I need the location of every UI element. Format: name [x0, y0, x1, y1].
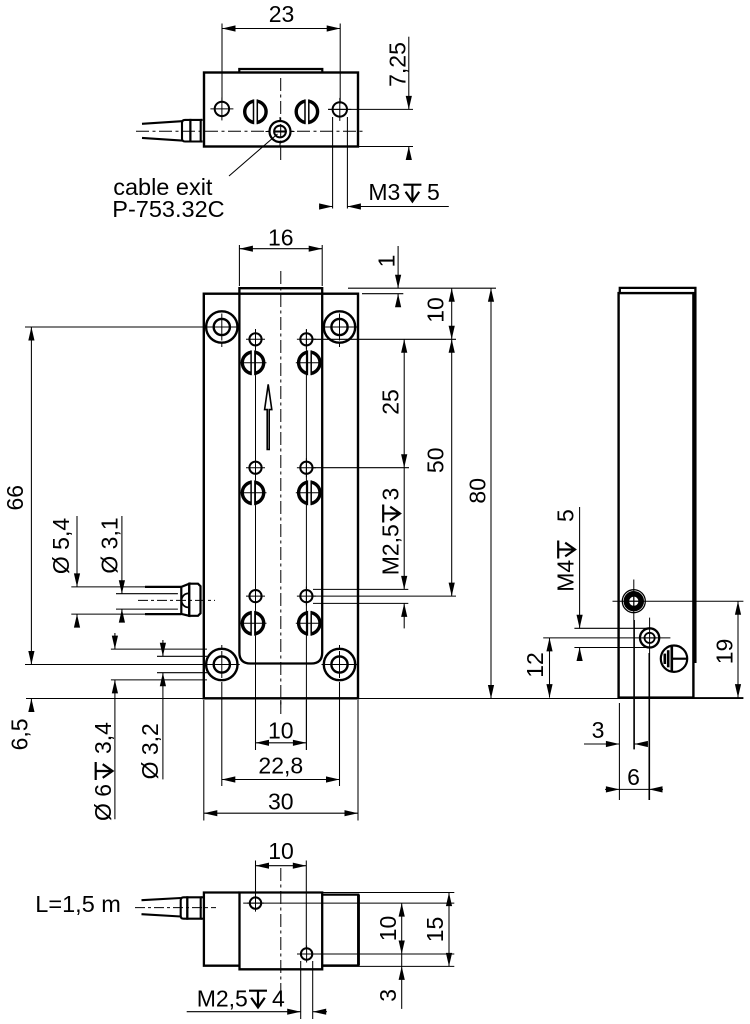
- dimension 10 bottom view: [255, 861, 257, 898]
- bottom view cable wires: [142, 898, 181, 900]
- svg-text:Ø 3,1: Ø 3,1: [97, 517, 123, 573]
- svg-text:19: 19: [712, 639, 738, 665]
- svg-text:L=1,5 m: L=1,5 m: [35, 891, 121, 917]
- svg-text:30: 30: [268, 789, 294, 815]
- front view centerline vertical: [280, 271, 282, 714]
- dimension 80: [362, 698, 496, 700]
- dimension M3 depth 5: [332, 117, 334, 209]
- front view corner hole bottom-left: [204, 649, 240, 680]
- top view mounting hole left: [210, 97, 233, 120]
- svg-text:M4: M4: [553, 560, 579, 592]
- front view platform: [239, 288, 322, 663]
- ground symbol: [661, 646, 687, 672]
- front view screw row2 right: [299, 480, 320, 505]
- svg-text:M2,5: M2,5: [378, 524, 404, 575]
- front view small hole row1 left: [246, 330, 265, 349]
- dimension diameter 6 depth 3,4: [114, 633, 116, 649]
- leader line cable exit: [229, 134, 278, 176]
- dimension 50: [313, 595, 456, 597]
- side view gland centerline horizontal / ext 19: [613, 600, 744, 602]
- dimension 10 bottom: [255, 700, 257, 750]
- svg-text:10: 10: [375, 916, 401, 942]
- side view platform: [620, 288, 696, 662]
- dimension 10 right bottom view: [401, 903, 403, 954]
- bottom view body left section: [204, 893, 240, 966]
- front view corner hole top-left: [204, 311, 240, 342]
- dimension 16: [238, 245, 240, 286]
- dowel pin centerline: [138, 599, 215, 601]
- front view corner hole bottom-right: [322, 649, 358, 680]
- svg-text:1: 1: [374, 255, 400, 268]
- top view centerline vertical: [280, 78, 282, 163]
- dimension 3 side: [618, 703, 620, 800]
- svg-text:66: 66: [2, 485, 28, 511]
- bottom view centerline horizontal: [135, 907, 216, 909]
- svg-text:P-753.32C: P-753.32C: [112, 196, 224, 222]
- front view screw row1 right: [299, 350, 320, 375]
- svg-text:7,25: 7,25: [385, 42, 411, 87]
- top view cable connector: [182, 120, 190, 142]
- top view screw left: [245, 99, 266, 124]
- dimension 6 side: [648, 653, 650, 800]
- top view platform lip: [239, 69, 322, 73]
- dimension diameter 3,2: [162, 640, 164, 656]
- top view body: [204, 73, 358, 147]
- svg-text:Ø 6: Ø 6: [90, 784, 116, 821]
- svg-text:Ø 5,4: Ø 5,4: [48, 518, 74, 574]
- front view corner hole top-right: [322, 311, 358, 342]
- front view small hole row2 left: [246, 458, 265, 477]
- svg-text:6,5: 6,5: [7, 718, 33, 750]
- svg-text:Ø 3,2: Ø 3,2: [137, 723, 163, 779]
- dimension 23: [221, 24, 223, 104]
- svg-text:5: 5: [427, 179, 440, 205]
- front view screw row1 left: [242, 350, 263, 375]
- svg-text:10: 10: [423, 297, 449, 323]
- dimension 7,25: [328, 108, 413, 110]
- motion arrow: [265, 384, 272, 449]
- front view screw row3 right: [299, 611, 320, 636]
- front view small hole row2 right: [297, 458, 316, 477]
- svg-text:3: 3: [592, 717, 605, 743]
- dimension diameter 3,1: [121, 516, 123, 594]
- top view mounting hole right: [328, 98, 351, 121]
- dimension M4 depth 5: [574, 627, 650, 629]
- svg-text:10: 10: [268, 838, 294, 864]
- svg-text:25: 25: [378, 389, 404, 415]
- side view gland circle: [622, 590, 645, 613]
- svg-text:50: 50: [423, 448, 449, 474]
- dimension 22,8: [221, 682, 223, 786]
- front view screw row3 left: [242, 611, 263, 636]
- dimension M2,5 depth 3: [313, 588, 408, 590]
- svg-text:5: 5: [553, 509, 579, 522]
- svg-text:4: 4: [272, 986, 285, 1012]
- front view small hole row1 right: [297, 330, 316, 349]
- svg-text:3: 3: [378, 488, 404, 501]
- top view screw right: [296, 99, 317, 124]
- dimension 10 right: [313, 338, 456, 340]
- dimension 6,5: [26, 698, 204, 700]
- side view M4 centerline vertical: [649, 618, 651, 800]
- svg-text:23: 23: [269, 1, 295, 27]
- dimension M2,5 depth 4: [300, 961, 302, 1019]
- side view M4 centerline horizontal / ext 12: [543, 637, 670, 639]
- dimension 19: [737, 601, 739, 697]
- svg-text:6: 6: [627, 764, 640, 790]
- svg-text:15: 15: [422, 917, 448, 943]
- bottom view hole bottom: [298, 946, 315, 963]
- dimension 1: [348, 287, 496, 289]
- bottom view centerline vertical: [280, 868, 282, 992]
- cable exit hole: [270, 121, 291, 142]
- front view body: [204, 294, 358, 699]
- top view centerline horizontal: [136, 130, 366, 132]
- svg-text:M3: M3: [368, 179, 400, 205]
- svg-text:16: 16: [268, 224, 294, 250]
- dimension 12: [549, 638, 551, 698]
- svg-text:M2,5: M2,5: [197, 986, 248, 1012]
- bottom view cable connector: [181, 897, 188, 918]
- front view small hole row3 left: [246, 587, 265, 606]
- bottom view hole top: [247, 895, 264, 912]
- dowel pin left: [71, 586, 145, 588]
- svg-text:10: 10: [268, 718, 294, 744]
- dimension diameter 5,4: [76, 516, 78, 587]
- dimension 25: [313, 467, 409, 469]
- side view body: [619, 293, 694, 697]
- bottom view right section: [322, 895, 358, 966]
- dimension 15: [322, 892, 454, 894]
- svg-text:12: 12: [522, 652, 548, 678]
- svg-text:3: 3: [375, 989, 401, 1002]
- svg-text:80: 80: [464, 478, 490, 504]
- side view gland centerline vertical: [633, 580, 635, 750]
- dimension 66: [25, 326, 207, 328]
- bottom view platform section: [240, 893, 323, 970]
- side view M4 hole: [640, 628, 659, 647]
- svg-text:3,4: 3,4: [90, 722, 116, 754]
- front view hole centerlines vertical: [255, 329, 257, 750]
- front view small hole row3 right: [297, 587, 316, 606]
- dimension 3 bottom view: [401, 954, 403, 1009]
- bottom view hole ext lines: [243, 902, 454, 904]
- dimension 30: [203, 700, 205, 821]
- bottom baseline extension: [26, 698, 743, 700]
- top view cable wires: [142, 121, 182, 124]
- svg-text:22,8: 22,8: [258, 753, 303, 779]
- front view screw row2 left: [242, 480, 263, 505]
